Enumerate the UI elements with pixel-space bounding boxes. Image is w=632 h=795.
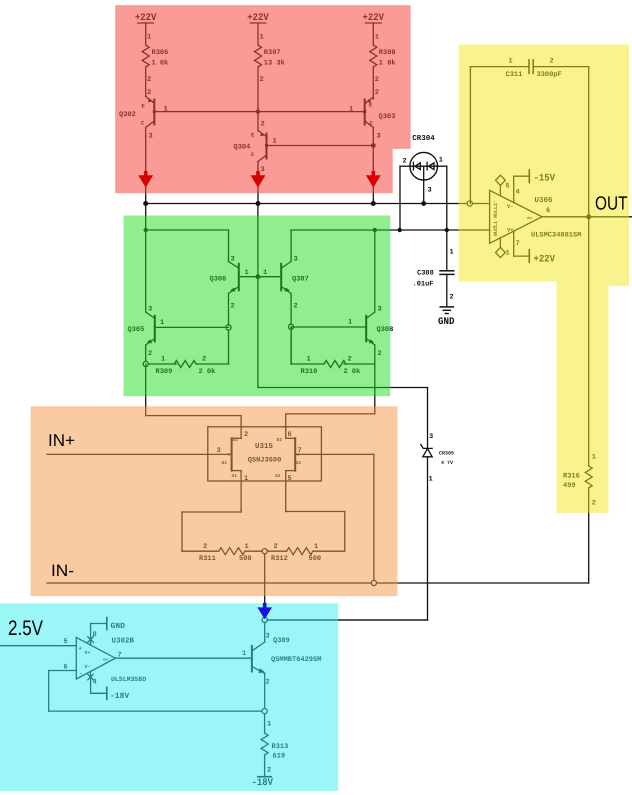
resistor R309 2.0k (143, 361, 228, 368)
resistor R308 10k (370, 45, 377, 99)
svg-text:IN-: IN- (51, 562, 74, 580)
red arrow (Q303 leg) (366, 171, 381, 188)
svg-text:C308: C308 (417, 269, 434, 277)
svg-text:1: 1 (450, 249, 454, 257)
power -18V (below R313) (258, 776, 272, 778)
zener CR305 4.7V (258, 388, 432, 621)
transistor Q307 (281, 228, 377, 364)
highlight yellow region (459, 45, 629, 513)
transistor Q305 (146, 312, 229, 364)
wire green center rail (257, 204, 259, 388)
svg-text:2: 2 (403, 158, 407, 166)
power +22V rail (Q302 column) (138, 23, 154, 45)
wire U302B output to Q309 base (115, 657, 252, 659)
svg-text:2.5V: 2.5V (8, 617, 43, 640)
resistor R310 2.0k (291, 327, 375, 368)
transistor Q308 (291, 230, 375, 364)
transistor Q302 (PNP) (146, 97, 156, 204)
svg-text:CR305: CR305 (439, 451, 454, 457)
wire S2 to R312 (286, 481, 345, 551)
wire lower bus (to U306 pin 3) (375, 228, 490, 232)
resistor R316 499 (585, 217, 592, 583)
red arrow (Q304 leg) (251, 171, 266, 188)
highlight orange region (31, 406, 398, 596)
resistor R306 10k (142, 45, 149, 97)
wire U315 pin 7 to IN- (321, 454, 374, 583)
wire D1 hookup (left) (146, 364, 241, 427)
transistor Q309 QSMMBT6429SM (252, 623, 267, 714)
svg-text:1: 1 (439, 157, 443, 165)
wire IN- bus (47, 580, 589, 585)
resistor R313 619 (261, 714, 268, 777)
highlight red region (115, 5, 410, 193)
wire D2 hookup (right) (286, 364, 375, 427)
transistor Q303 (PNP) (363, 97, 373, 204)
highlight green region (124, 216, 391, 397)
svg-text:OUT: OUT (595, 194, 628, 215)
ground GND (C308) (440, 307, 453, 314)
power +22V rail (Q304 column) (250, 23, 266, 45)
wire feedback loop U302B (49, 671, 262, 712)
svg-text:.01uF: .01uF (413, 281, 434, 289)
svg-text:3: 3 (429, 433, 433, 441)
resistor R311 500 (182, 548, 262, 555)
wire green left rail (144, 204, 239, 313)
svg-text:IN+: IN+ (48, 431, 75, 450)
svg-text:3: 3 (428, 187, 432, 195)
wire base bus Q302-Q303 (154, 109, 364, 113)
wire Q304 base to Q303 collector (267, 143, 376, 148)
diode pair CR304 (400, 152, 447, 230)
svg-text:2: 2 (450, 294, 454, 302)
power +22V rail (Q303 column) (366, 23, 382, 45)
wire IN+ to U315 pin 3 (47, 453, 208, 455)
resistor R307 13.3k (255, 45, 262, 131)
wire S1 to R311 (182, 481, 241, 551)
op-amp U306 (490, 170, 542, 262)
wire 2.5V input (0, 645, 76, 647)
wire R311/R312 junction to Q309 (262, 554, 267, 623)
dual JFET U315 QSNJ3600 (208, 427, 322, 481)
svg-text:1: 1 (429, 476, 433, 484)
highlight cyan region (0, 603, 338, 791)
wire U306 output to OUT (542, 214, 632, 219)
transistor Q306 (226, 264, 281, 364)
resistor R312 500 (262, 548, 345, 555)
svg-text:4 7V: 4 7V (441, 460, 453, 466)
capacitor C308 .01uF (440, 230, 454, 307)
red arrow (Q302 leg) (138, 171, 153, 188)
wire summing bus (to U306 pin 2) (143, 201, 489, 206)
svg-text:CR304: CR304 (412, 134, 435, 143)
op-amp U302B (76, 618, 115, 700)
blue arrow (to Q309) (257, 603, 272, 619)
wire Q309 collector node to CR305 branch (267, 619, 427, 621)
capacitor C311 3300pF feedback loop (470, 60, 588, 217)
transistor Q304 (PNP) (258, 131, 268, 204)
svg-text:GND: GND (438, 317, 455, 328)
